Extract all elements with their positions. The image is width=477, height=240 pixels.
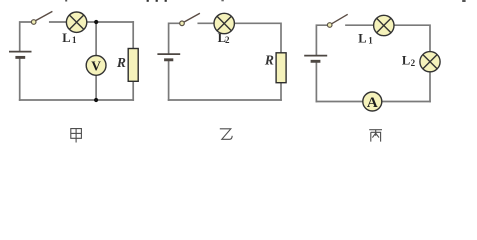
svg-text:L: L — [62, 31, 70, 45]
resistor R 甲 — [128, 49, 138, 82]
wire top-left corner 乙 — [169, 23, 180, 53]
wire switch to lamp 甲 — [50, 21, 67, 23]
svg-text:L: L — [358, 31, 366, 45]
wire left side lower 乙 — [168, 61, 170, 100]
wire left side lower 甲 — [19, 58, 21, 100]
label 乙 — [220, 129, 232, 140]
wire switch to lamp 乙 — [198, 22, 214, 24]
svg-text:R: R — [116, 55, 126, 70]
label 丙 — [369, 130, 382, 142]
switch S3 丙 — [327, 14, 347, 27]
label L2 丙 — [402, 54, 416, 68]
voltmeter V1 甲 — [86, 56, 106, 76]
stray mark top edge 4 — [165, 0, 167, 2]
wire left side lower 丙 — [315, 62, 317, 101]
wire switch to lamp 丙 — [346, 24, 374, 26]
wire bottom 乙 — [169, 99, 281, 101]
wire voltmeter branch upper 甲 — [95, 22, 97, 56]
svg-text:V: V — [91, 59, 101, 74]
wire top-left corner 丙 — [316, 25, 327, 55]
switch S1 甲 — [31, 11, 52, 24]
wire bottom left 丙 — [316, 101, 362, 103]
stray mark top edge 3 — [156, 0, 158, 2]
label L2 乙 — [218, 31, 230, 45]
lamp L2 丙 — [420, 52, 440, 72]
wire right side upper 甲 — [132, 22, 134, 49]
resistor R 乙 — [276, 53, 286, 83]
wire bottom 甲 — [20, 99, 134, 101]
node junction bottom 甲 — [94, 98, 98, 102]
stray mark top edge 2 — [147, 0, 149, 2]
wire top-left corner 甲 — [20, 22, 32, 51]
switch S2 乙 — [180, 13, 200, 25]
svg-text:L: L — [402, 54, 410, 68]
wire right side lower 丙 — [429, 72, 431, 102]
svg-text:A: A — [367, 95, 378, 111]
wire right side lower 甲 — [132, 81, 134, 100]
svg-text:R: R — [264, 53, 274, 68]
lamp L1 丙 — [374, 15, 394, 35]
label 甲 — [71, 129, 82, 143]
svg-text:1: 1 — [72, 35, 77, 45]
stray mark top edge 5 — [221, 0, 223, 1]
svg-text:2: 2 — [411, 58, 416, 68]
wire lamp to right corner 乙 — [235, 23, 282, 53]
battery B1 甲 — [9, 52, 32, 58]
svg-text:2: 2 — [225, 35, 230, 45]
battery B3 丙 — [304, 56, 327, 62]
wire bottom right 丙 — [382, 101, 430, 103]
wire voltmeter branch lower 甲 — [95, 75, 97, 100]
wire lamp to right corner 甲 — [87, 21, 133, 23]
wire right side lower 乙 — [280, 83, 282, 100]
node junction top 甲 — [94, 20, 98, 24]
lamp L2 乙 — [214, 13, 234, 33]
stray mark top edge 6 — [462, 0, 465, 2]
wire lamp to right corner 丙 — [394, 25, 430, 51]
label L1 丙 — [358, 31, 373, 45]
ammeter A1 丙 — [363, 92, 382, 111]
label L1 甲 — [62, 31, 77, 45]
battery B2 乙 — [157, 54, 180, 60]
stray mark top edge 1 — [65, 0, 67, 2]
svg-text:1: 1 — [368, 36, 373, 46]
lamp L1 甲 — [66, 12, 86, 32]
